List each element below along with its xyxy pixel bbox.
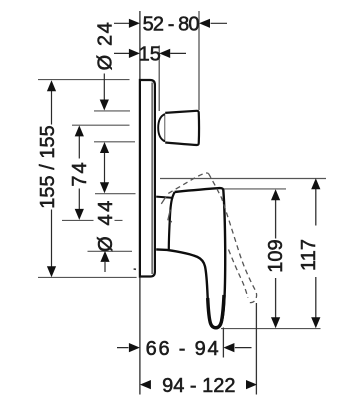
diverter knob (top handle) [158, 111, 199, 145]
lever back edge [169, 192, 175, 250]
wire: extension line y=220 (74 bottom, broken by text) [62, 219, 123, 221]
wire: extension line x=159 (knob base) [158, 46, 160, 112]
svg-text:Ø 44: Ø 44 [95, 198, 117, 252]
dimension 117 (far right) [298, 178, 321, 328]
wire: extension line y=328.5 (lever tip bottom) [221, 328, 321, 330]
svg-text:74: 74 [69, 160, 91, 186]
wire: extension line y=79.5 (plate top, left) [38, 79, 130, 81]
wire: extension line y=142 (knob bottom) [94, 141, 135, 143]
wire: extension line y=189 (solid lever top) [223, 188, 287, 190]
wire: wall extension line x=140 (above plate) [139, 11, 141, 79]
svg-text:66 - 94: 66 - 94 [146, 338, 221, 360]
svg-text:94 - 122: 94 - 122 [162, 375, 235, 397]
dimension 109 (right) [265, 189, 287, 328]
dimension 74 [69, 125, 91, 219]
wire: extension line y=111 (knob top) [94, 110, 130, 112]
wire: extension line y=251 (collar bottom) [88, 250, 133, 252]
dimension 94-122 (bottom row) [140, 375, 257, 397]
wire: extension line x=199 (knob front face) [198, 11, 200, 110]
svg-text:Ø 24: Ø 24 [95, 21, 117, 71]
wire: extension line y=125 (74 top) [72, 124, 130, 126]
wire: extension line y=277.5 (plate bottom, left) [38, 276, 137, 278]
escutcheon plate (side view) [140, 80, 155, 277]
dimension 15 [114, 44, 186, 66]
wire: extension line x=256.4 (dashed lever tip) [255, 303, 257, 395]
wire: extension line y=194 (collar top) [95, 193, 136, 195]
dashed alternate lever position [161, 173, 256, 303]
wire: extension line y=178.5 (dashed lever top) [160, 178, 326, 180]
dimension 155/155 (left) [37, 80, 59, 277]
svg-text:52 - 80: 52 - 80 [143, 14, 200, 36]
dimension Ø24 leader and label [95, 21, 117, 111]
lever handle outline (solid) [156, 188, 225, 328]
dimension chain arrows between knob bottom and collar top [100, 142, 109, 193]
svg-text:15: 15 [139, 44, 161, 66]
svg-text:117: 117 [298, 239, 320, 271]
svg-text:109: 109 [265, 239, 287, 272]
wire: wall extension line x=140 (below plate to dim rows) [139, 278, 141, 395]
wire: extension line x=223.4 (solid lever tip) [222, 328, 224, 358]
dimension 66-94 (bottom row) [117, 338, 252, 360]
collar top edge [156, 197, 173, 198]
svg-text:155 / 155: 155 / 155 [37, 125, 59, 208]
dimension Ø44 label and bottom arrow [95, 198, 117, 272]
dimension 52-80 (top row) [114, 14, 227, 36]
node: small mark left of plate [134, 268, 136, 270]
